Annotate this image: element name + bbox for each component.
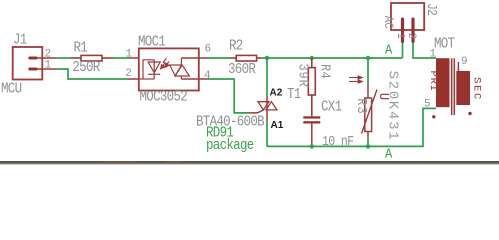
MOT core	[452, 58, 455, 115]
MOT primary polarity dot	[432, 115, 435, 118]
MOC1 pin 1 stub	[128, 57, 139, 59]
wire MOC pin4 to T1 gate	[209, 79, 249, 113]
wire J2 pin2 to MOT pin1	[413, 43, 436, 58]
svg-text:R1: R1	[74, 41, 88, 57]
capacitor CX1	[303, 116, 320, 123]
svg-text:250R: 250R	[72, 60, 100, 76]
svg-text:MCU: MCU	[1, 82, 22, 98]
wire T1 branch	[266, 58, 268, 96]
MOC1 internal triac	[170, 58, 190, 79]
svg-text:AC: AC	[381, 16, 396, 29]
svg-text:MOT: MOT	[434, 37, 455, 53]
MOC1 photo emission arrows	[161, 58, 169, 69]
op-isolator MOC1 box	[139, 48, 199, 90]
CX1 bottom pin	[311, 124, 313, 147]
junction R3 bottom	[366, 144, 370, 148]
svg-text:MOC1: MOC1	[138, 35, 166, 51]
svg-text:J2: J2	[424, 3, 439, 15]
MOC1 pin 4 stub	[181, 78, 209, 80]
svg-text:A: A	[385, 145, 392, 161]
J2 pin 2 pad	[411, 18, 414, 44]
svg-text:A: A	[385, 42, 392, 58]
svg-text:5: 5	[424, 99, 430, 111]
MOT primary winding	[436, 58, 450, 107]
resistor R1	[71, 55, 114, 61]
wire R3 to bottom rail	[367, 138, 369, 147]
svg-text:SEC: SEC	[471, 77, 483, 101]
J2 pin 1 pad	[401, 18, 404, 44]
wire MOC pin6 to R2	[209, 57, 231, 59]
svg-text:1: 1	[394, 32, 406, 39]
resistor R4	[308, 58, 315, 116]
resistor R2	[231, 55, 263, 61]
J1 pin 2 pad	[28, 57, 37, 60]
MOT pin 9 stub	[457, 62, 459, 71]
triac T1	[249, 96, 277, 121]
MOC1 pin 2 stub	[128, 78, 139, 80]
svg-text:MOC3052: MOC3052	[140, 90, 188, 106]
svg-text:A2: A2	[270, 87, 283, 98]
window edge bar	[0, 161, 499, 164]
svg-text:S20K431: S20K431	[385, 71, 401, 142]
svg-text:39R: 39R	[295, 64, 311, 88]
varistor R3	[362, 83, 378, 138]
svg-text:J1: J1	[13, 33, 27, 49]
connector J1	[13, 47, 43, 80]
MOT secondary polarity dot	[468, 112, 471, 115]
wire J1 pin2 to R1	[57, 57, 71, 59]
svg-text:6: 6	[205, 44, 211, 56]
MOC1 internal LED	[139, 60, 160, 79]
bottom rail wire	[267, 108, 436, 146]
MOT secondary winding	[456, 71, 470, 105]
svg-text:CX1: CX1	[321, 100, 342, 116]
svg-text:T1: T1	[287, 87, 301, 103]
junction CX1 bottom	[310, 144, 314, 148]
svg-text:2: 2	[405, 32, 417, 38]
top rail wire net A	[262, 57, 403, 59]
wire T1 to bottom rail	[266, 121, 268, 146]
svg-text:R4: R4	[317, 64, 333, 79]
junction at R3	[366, 56, 370, 60]
wire R1 to MOC pin1	[113, 57, 128, 59]
wire J2 pin1 to rail	[402, 43, 404, 58]
svg-text:R3: R3	[354, 98, 370, 114]
svg-text:R2: R2	[229, 39, 243, 55]
svg-text:4: 4	[204, 70, 211, 82]
svg-text:A1: A1	[271, 120, 284, 131]
wire J1 pin1 to MOC pin2	[57, 69, 128, 79]
MOC1 pin 6 stub	[181, 57, 209, 59]
svg-text:1: 1	[45, 59, 52, 71]
wire R3 branch	[367, 58, 369, 83]
svg-text:PRI: PRI	[427, 71, 439, 92]
svg-text:1: 1	[430, 49, 437, 61]
junction at R4	[310, 56, 314, 60]
varistor arrows	[349, 76, 362, 83]
svg-text:360R: 360R	[228, 62, 256, 78]
svg-text:2: 2	[125, 68, 131, 80]
connector J2	[391, 3, 424, 30]
J1 pin 1 pad	[28, 68, 37, 71]
svg-text:9: 9	[461, 56, 467, 68]
svg-text:package: package	[206, 138, 254, 154]
junction at T1	[265, 56, 269, 60]
